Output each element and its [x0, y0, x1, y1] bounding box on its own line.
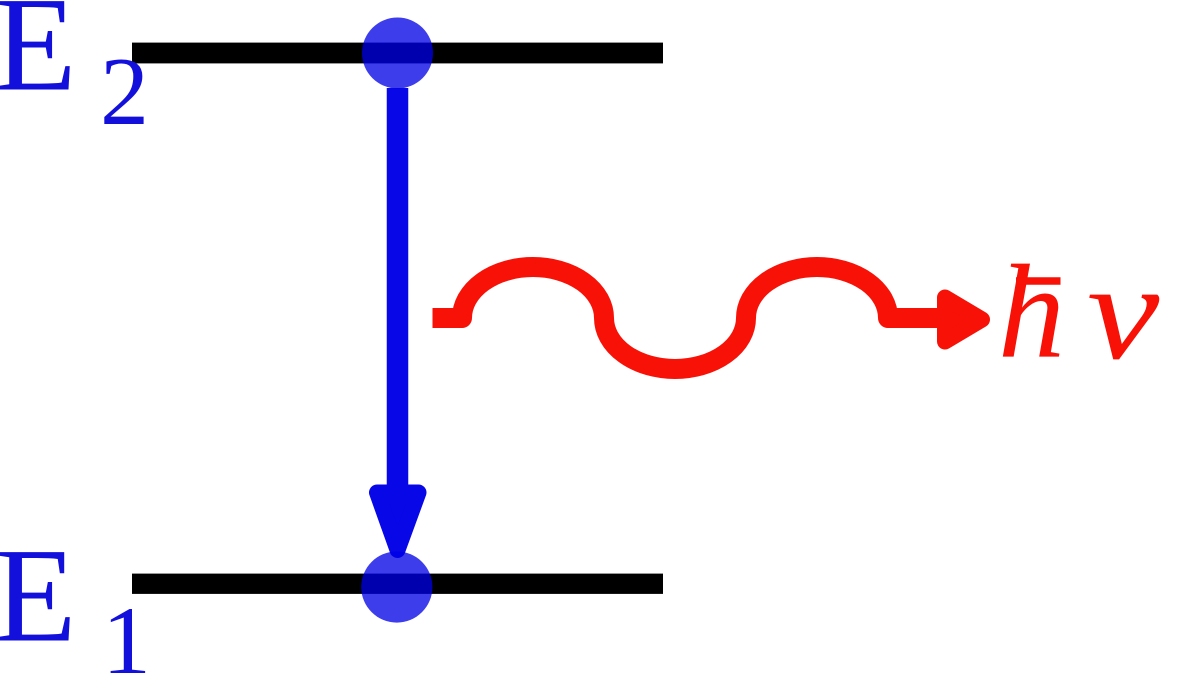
svg-text:ν: ν: [1087, 235, 1159, 388]
hbar stroke (bar of hbar): [1016, 277, 1061, 285]
transition arrow (head): [377, 493, 419, 551]
label E1: [0, 522, 151, 673]
svg-text:E: E: [0, 0, 76, 120]
photon arrowhead: [945, 298, 982, 342]
label hbar-nu: [998, 235, 1159, 388]
electron dot on E1: [361, 551, 432, 622]
energy level E1 line: [132, 574, 663, 594]
svg-text:2: 2: [100, 38, 149, 146]
svg-text:E: E: [0, 522, 76, 671]
svg-text:h: h: [998, 238, 1065, 386]
electron dot on E2: [362, 18, 433, 89]
photon squiggle: [433, 267, 947, 369]
label E2: [0, 0, 149, 146]
transition arrow (shaft): [387, 88, 409, 505]
energy level E2 line: [132, 43, 663, 64]
svg-text:1: 1: [102, 587, 151, 673]
